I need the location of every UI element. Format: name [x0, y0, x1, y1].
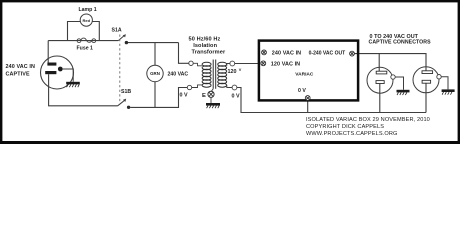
svg-text:120 VAC IN: 120 VAC IN	[271, 61, 300, 67]
ground (chassis) at transformer shield	[206, 103, 220, 108]
svg-text:COPYRIGHT DICK CAPPELS: COPYRIGHT DICK CAPPELS	[306, 124, 384, 130]
svg-text:240 VAC IN: 240 VAC IN	[272, 50, 301, 56]
output connector J2	[413, 67, 441, 93]
transformer secondary top terminal	[230, 61, 235, 66]
VARIAC box	[259, 41, 358, 101]
wire: primary bottom lead	[192, 85, 202, 88]
wire: primary top lead	[193, 63, 202, 66]
wire: input connector ground pin to ground	[63, 69, 73, 82]
copyright text block	[306, 117, 430, 137]
svg-text:S1B: S1B	[121, 89, 131, 95]
svg-text:240 VAC: 240 VAC	[168, 72, 189, 78]
terminal 0 V (variac bottom)	[305, 96, 310, 101]
border frame (decorative, drawn as stroke)	[1, 1, 459, 143]
wire: transformer secondary bottom to 0V rail	[237, 88, 426, 113]
wire: J2 ground pin to ground	[441, 77, 448, 90]
wire: J1 ground pin to ground	[395, 77, 403, 90]
switch linkage dashed line	[119, 35, 121, 104]
svg-text:Isolation: Isolation	[193, 43, 217, 49]
switch S1A	[112, 28, 129, 45]
wire: corner down to transformer primary top	[179, 43, 189, 64]
wire: secondary bottom lead	[227, 85, 232, 88]
transformer secondary bottom terminal	[232, 85, 237, 90]
svg-text:120: 120	[228, 69, 237, 75]
wire: input connector bottom to rail	[49, 74, 118, 106]
terminal 120 VAC IN	[261, 61, 266, 66]
wire: main top line left of S1A	[48, 40, 118, 42]
wire: output connector 1 bottom drop	[379, 83, 381, 112]
transformer shield E terminal	[202, 89, 214, 103]
svg-text:50 Hz/60 Hz: 50 Hz/60 Hz	[189, 36, 221, 42]
ground (chassis) at input connector	[66, 82, 80, 87]
svg-text:GRN: GRN	[150, 71, 160, 76]
lamp Lamp 1 (Red indicator across fuse)	[79, 7, 97, 26]
wire: transformer secondary top to VARIAC box 120 VAC IN	[235, 63, 259, 65]
transformer primary bottom terminal	[187, 85, 191, 89]
svg-text:Lamp 1: Lamp 1	[79, 7, 97, 13]
ground (chassis) at J1	[397, 90, 410, 95]
svg-text:Fuse 1: Fuse 1	[77, 46, 94, 52]
wire: main top line right of S1A	[127, 42, 178, 44]
svg-text:CAPTIVE CONNECTORS: CAPTIVE CONNECTORS	[369, 40, 432, 46]
terminal 240 VAC IN	[262, 50, 267, 55]
fuse Fuse 1	[77, 38, 96, 51]
svg-text:VARIAC: VARIAC	[295, 71, 314, 77]
svg-text:S1A: S1A	[112, 28, 122, 34]
wire: GRN lamp drop from top line	[154, 43, 156, 66]
svg-text:ISOLATED VARIAC BOX 29 NOVEMBE: ISOLATED VARIAC BOX 29 NOVEMBER, 2010	[306, 117, 430, 123]
wire: output connector 1 top drop	[378, 54, 380, 72]
transformer secondary winding	[218, 62, 227, 87]
svg-text:Red: Red	[83, 18, 91, 23]
svg-text:0-240 VAC OUT: 0-240 VAC OUT	[309, 51, 347, 57]
input connector 240 VAC IN CAPTIVE	[6, 56, 74, 89]
switch S1B	[118, 89, 132, 109]
svg-text:WWW.PROJECTS.CAPPELS.ORG: WWW.PROJECTS.CAPPELS.ORG	[306, 131, 397, 137]
wire: rail from S1B to transformer primary bottom	[130, 88, 187, 108]
wire: GRN lamp to bottom rail	[154, 82, 156, 108]
transformer T1 label	[189, 36, 226, 55]
svg-text:0 V: 0 V	[232, 94, 240, 100]
svg-text:CAPTIVE: CAPTIVE	[6, 72, 30, 78]
wire: lamp right leg	[92, 22, 99, 41]
wire: 0-240 VAC OUT line to connectors	[355, 54, 427, 71]
svg-text:0 V: 0 V	[298, 88, 306, 94]
svg-text:Transformer: Transformer	[192, 50, 226, 56]
terminal 0-240 VAC OUT	[350, 51, 355, 56]
svg-text:0 V: 0 V	[180, 92, 188, 98]
svg-text:E: E	[202, 93, 206, 99]
lamp GRN (240 VAC indicator)	[147, 65, 189, 81]
wire: secondary top lead	[227, 64, 230, 66]
output connector J1	[367, 67, 395, 93]
wire: output connector 2 bottom drop	[425, 83, 427, 113]
ground (chassis) at J2	[442, 89, 455, 94]
wire: VARIAC 0V terminal drop	[307, 101, 309, 113]
wire: left corner drop to input connector top	[47, 41, 49, 63]
transformer primary winding	[202, 62, 211, 87]
transformer core	[212, 60, 214, 89]
svg-text:240 VAC IN: 240 VAC IN	[6, 64, 36, 70]
transformer primary top terminal	[189, 61, 193, 65]
wire: lamp left leg	[68, 22, 81, 41]
